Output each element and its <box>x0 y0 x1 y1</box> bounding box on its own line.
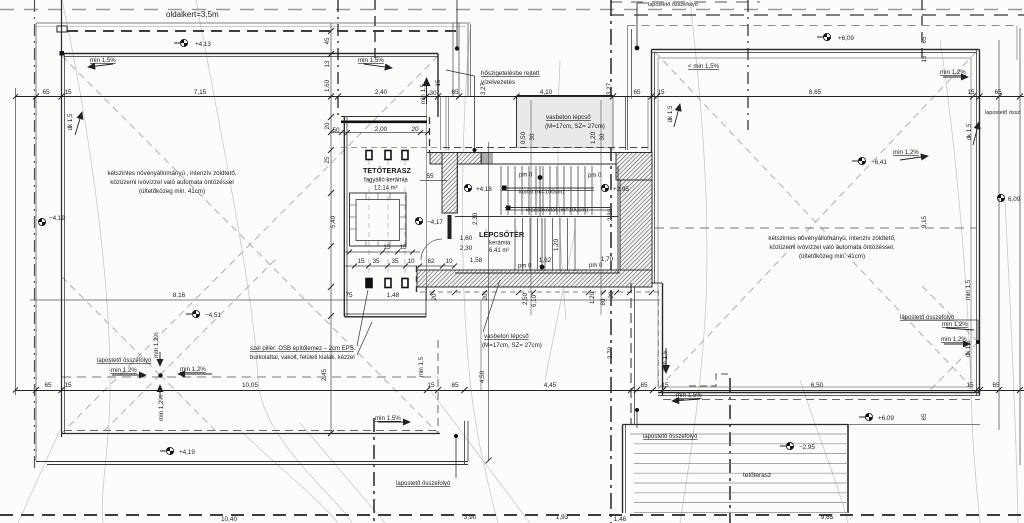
svg-text:6,50: 6,50 <box>811 382 824 389</box>
dim ticks on y=390 <box>33 387 1023 393</box>
svg-text:65: 65 <box>633 89 641 96</box>
svg-text:65: 65 <box>42 89 50 96</box>
svg-text:(M=17cm, SZ= 27cm): (M=17cm, SZ= 27cm) <box>545 123 605 130</box>
svg-text:4,10: 4,10 <box>540 89 553 96</box>
svg-text:10: 10 <box>407 258 415 265</box>
svg-text:dk 1,5: dk 1,5 <box>966 123 973 140</box>
svg-text:közüzemi ivóvízzel való automa: közüzemi ivóvízzel való automata öntözés… <box>110 179 233 186</box>
svg-text:65: 65 <box>921 413 928 420</box>
spot +4,17 door <box>415 217 422 224</box>
svg-text:TETŐTERASZ: TETŐTERASZ <box>363 166 412 175</box>
walking lines with dots <box>539 166 541 216</box>
svg-text:35: 35 <box>372 258 380 265</box>
svg-text:dk 1,5: dk 1,5 <box>667 105 674 122</box>
handrails <box>501 187 594 189</box>
svg-text:min 1,5%: min 1,5% <box>90 57 116 64</box>
svg-text:1,20: 1,20 <box>590 131 597 144</box>
left property dashed vertical <box>34 0 36 470</box>
svg-text:6,41 m²: 6,41 m² <box>489 248 509 254</box>
spot -4,19 left edge <box>38 218 45 225</box>
oldalkert dashed gray line top <box>0 9 1024 11</box>
left edge <box>343 117 345 317</box>
svg-text:pm 0: pm 0 <box>518 264 532 270</box>
spot +4,18 <box>464 184 471 191</box>
svg-text:30: 30 <box>429 90 437 97</box>
svg-text:1,20: 1,20 <box>553 238 560 251</box>
stairs lower flight treads <box>515 218 575 271</box>
svg-text:hőszigetelésbe rejtett: hőszigetelésbe rejtett <box>481 70 540 77</box>
svg-text:0,50: 0,50 <box>520 131 527 144</box>
svg-text:15: 15 <box>966 382 974 389</box>
svg-text:15: 15 <box>399 244 407 251</box>
svg-text:min 1,2%: min 1,2% <box>940 69 966 76</box>
svg-text:15: 15 <box>64 382 72 389</box>
svg-text:+4,19: +4,19 <box>179 449 195 456</box>
svg-text:min 1,5: min 1,5 <box>418 356 425 377</box>
svg-text:−6,41: −6,41 <box>871 159 887 166</box>
svg-text:6,09: 6,09 <box>1008 196 1021 203</box>
svg-text:15: 15 <box>357 258 365 265</box>
svg-text:lapostető összefolyó: lapostető összefolyó <box>648 2 698 8</box>
bottom edge <box>344 313 426 315</box>
svg-text:< min 1,5%: < min 1,5% <box>688 63 720 70</box>
svg-text:(M=17cm, SZ= 27cm): (M=17cm, SZ= 27cm) <box>482 342 542 349</box>
svg-text:10,05: 10,05 <box>242 382 258 389</box>
svg-text:75: 75 <box>345 292 353 299</box>
svg-text:min 1,2%: min 1,2% <box>893 149 919 156</box>
dashed line through right block <box>655 227 976 229</box>
right block drain leader <box>903 319 978 321</box>
svg-text:2,40: 2,40 <box>375 89 388 96</box>
svg-text:min 1,5%: min 1,5% <box>375 415 401 422</box>
svg-text:dk 1,5: dk 1,5 <box>67 113 74 130</box>
svg-text:15: 15 <box>383 244 391 251</box>
node top left <box>60 51 65 56</box>
svg-text:(ültetőközeg min. 41cm): (ültetőközeg min. 41cm) <box>799 253 865 260</box>
central section line <box>610 0 612 523</box>
svg-text:9,15: 9,15 <box>921 215 928 228</box>
svg-text:30: 30 <box>529 133 536 140</box>
svg-text:5,40: 5,40 <box>330 215 337 228</box>
svg-text:2,45: 2,45 <box>321 368 328 381</box>
svg-text:−4,19: −4,19 <box>49 215 65 222</box>
building edges <box>61 0 63 437</box>
vertical dim chains <box>330 23 332 433</box>
svg-text:10,40: 10,40 <box>221 516 237 523</box>
drain valley rays left <box>62 277 160 375</box>
svg-text:4,50: 4,50 <box>479 370 486 383</box>
svg-text:2,50: 2,50 <box>522 292 529 305</box>
svg-text:15: 15 <box>967 89 975 96</box>
svg-text:1,20: 1,20 <box>589 291 596 304</box>
svg-text:2,30: 2,30 <box>472 212 479 225</box>
svg-text:2,30: 2,30 <box>607 208 614 221</box>
dashed pergola guides <box>341 147 440 149</box>
svg-text:min 1,2%: min 1,2% <box>111 367 137 374</box>
svg-text:62: 62 <box>427 258 435 265</box>
svg-text:10: 10 <box>445 258 453 265</box>
svg-text:+4,18: +4,18 <box>476 186 492 193</box>
parapet top <box>341 116 427 118</box>
right drain <box>976 340 980 344</box>
svg-text:−2,95: −2,95 <box>799 444 815 451</box>
svg-text:15: 15 <box>661 382 669 389</box>
szél pillér leaders <box>357 290 368 346</box>
svg-text:kerámia: kerámia <box>489 241 511 247</box>
svg-text:45: 45 <box>324 37 331 44</box>
svg-text:min 1,5: min 1,5 <box>420 83 427 104</box>
bottom heavy dashed boundary <box>0 514 1024 516</box>
svg-text:1,62: 1,62 <box>539 257 552 264</box>
svg-text:korlát (m=100cm): korlát (m=100cm) <box>519 190 564 196</box>
right drain rays <box>920 284 978 342</box>
svg-text:lapostető össz: lapostető össz <box>985 110 1020 116</box>
svg-text:20: 20 <box>482 293 489 300</box>
svg-text:közüzemi ivóvízzel való automa: közüzemi ivóvízzel való automata öntözés… <box>769 244 894 251</box>
svg-text:65: 65 <box>451 89 459 96</box>
svg-text:15: 15 <box>427 382 435 389</box>
svg-text:lapostető összefolyó: lapostető összefolyó <box>97 358 152 364</box>
svg-text:1,58: 1,58 <box>470 257 483 264</box>
hőszigetelésbe leader <box>474 76 476 150</box>
svg-text:15: 15 <box>921 55 928 62</box>
svg-text:oldalkert=3,5m: oldalkert=3,5m <box>166 10 219 19</box>
concrete stair shaded box <box>517 97 614 148</box>
svg-text:tetőterasz: tetőterasz <box>743 472 771 479</box>
svg-text:min 1,5%: min 1,5% <box>358 57 384 64</box>
inner thin green roof rect <box>658 58 971 387</box>
stairs upper flight treads <box>501 166 592 215</box>
svg-text:35: 35 <box>391 258 399 265</box>
svg-text:min 1,2%: min 1,2% <box>941 336 967 343</box>
svg-text:9,65: 9,65 <box>821 514 834 521</box>
svg-text:30: 30 <box>599 133 606 140</box>
svg-text:20: 20 <box>324 122 331 129</box>
svg-text:min 1,2%: min 1,2% <box>180 366 206 373</box>
svg-text:min 1,2%: min 1,2% <box>153 332 160 358</box>
svg-text:2,00: 2,00 <box>375 126 388 133</box>
bottom outer double lines <box>36 461 468 463</box>
svg-text:−4,17: −4,17 <box>427 219 443 226</box>
svg-text:1,70: 1,70 <box>601 256 614 263</box>
svg-text:+4,13: +4,13 <box>195 41 211 48</box>
svg-text:lapostető összefolyó: lapostető összefolyó <box>643 434 698 440</box>
svg-text:8,65: 8,65 <box>809 89 822 96</box>
faint slope diagonals left block <box>62 52 978 433</box>
vertical slope arrows <box>426 78 428 104</box>
svg-text:3,70: 3,70 <box>607 346 614 359</box>
top right leader with dot <box>636 3 638 48</box>
svg-text:pm 0: pm 0 <box>589 263 603 269</box>
svg-text:fagyálló kerámia: fagyálló kerámia <box>364 178 408 184</box>
right block big X <box>655 52 976 392</box>
spot +4,13 <box>174 39 188 46</box>
roof drain left block <box>158 373 162 377</box>
spot +4,19 bottom left <box>160 447 174 454</box>
svg-text:20: 20 <box>431 293 438 300</box>
svg-text:pm 0: pm 0 <box>519 173 533 179</box>
svg-text:pm 0: pm 0 <box>588 173 602 179</box>
spot -2,95 bottom terrace <box>780 442 794 449</box>
bottom centre drain leader <box>455 437 457 478</box>
svg-text:(ültetőközeg min. 41cm): (ültetőközeg min. 41cm) <box>139 188 205 195</box>
svg-text:6,10: 6,10 <box>531 294 538 307</box>
heavy dashed top inner <box>67 30 459 32</box>
svg-text:−4,51: −4,51 <box>205 312 221 319</box>
mid horizontal line (8,16) <box>30 299 660 301</box>
svg-text:lépcsőkorlát (m=100cm): lépcsőkorlát (m=100cm) <box>526 208 588 214</box>
svg-text:55: 55 <box>426 173 434 180</box>
svg-text:3,90: 3,90 <box>464 514 477 521</box>
svg-text:vasbeton lépcső: vasbeton lépcső <box>546 114 591 121</box>
core walls hatched <box>417 153 652 288</box>
svg-text:1,60: 1,60 <box>324 79 331 92</box>
valley dashed line through left drain <box>62 376 438 378</box>
posts bottom <box>366 279 372 288</box>
svg-text:80: 80 <box>600 298 607 305</box>
svg-text:+6,09: +6,09 <box>838 35 854 42</box>
other heavy dash verticals <box>337 0 339 117</box>
spot +2,95 <box>601 184 608 191</box>
top centre leader x457 <box>456 0 458 48</box>
dashed min slope line below right block <box>663 399 980 401</box>
spot -6,41 <box>852 157 866 164</box>
svg-text:65: 65 <box>994 89 1002 96</box>
svg-text:65: 65 <box>451 382 459 389</box>
svg-text:65: 65 <box>921 36 928 43</box>
bottom terrace drain leader <box>636 410 638 428</box>
svg-text:burkolattal, vakolt, felületi: burkolattal, vakolt, felületi kialak. ké… <box>250 355 355 361</box>
svg-text:1,93: 1,93 <box>556 514 569 521</box>
svg-text:25: 25 <box>324 156 331 163</box>
bottom building edge + inner dashed <box>62 433 441 435</box>
svg-text:7,15: 7,15 <box>194 89 207 96</box>
svg-text:3,27: 3,27 <box>480 82 487 95</box>
svg-text:min 1,2%: min 1,2% <box>942 321 968 328</box>
svg-text:50: 50 <box>332 127 340 134</box>
svg-text:20: 20 <box>411 126 419 133</box>
svg-text:min 1,2%: min 1,2% <box>158 395 165 421</box>
svg-text:1,48: 1,48 <box>387 292 400 299</box>
outer thin envelope <box>36 23 471 461</box>
vertical dim extension lines through core <box>530 100 532 315</box>
svg-text:szél pillér: OSB építőlemez –: szél pillér: OSB építőlemez – 2cm EPS <box>250 346 354 352</box>
wall face lines <box>417 153 652 288</box>
svg-text:65: 65 <box>44 382 52 389</box>
vasbeton lépcső lower leader <box>483 280 500 332</box>
svg-text:1,46: 1,46 <box>614 516 627 523</box>
svg-text:min 1,5: min 1,5 <box>965 279 972 300</box>
posts top <box>366 151 372 160</box>
svg-text:4,45: 4,45 <box>544 382 557 389</box>
svg-text:kétszintes növényállományú , i: kétszintes növényállományú , intenzív zö… <box>108 170 237 177</box>
rotated dimension labels <box>67 36 973 421</box>
svg-text:LÉPCSŐTÉR: LÉPCSŐTÉR <box>479 230 525 239</box>
svg-text:15: 15 <box>657 89 665 96</box>
skylight <box>350 193 407 246</box>
svg-text:vasbeton lépcső: vasbeton lépcső <box>484 333 529 340</box>
svg-text:15: 15 <box>64 89 72 96</box>
svg-text:12,14 m²: 12,14 m² <box>374 186 398 192</box>
svg-text:+6,09: +6,09 <box>878 415 894 422</box>
svg-text:65: 65 <box>992 382 1000 389</box>
spot -4,51 <box>186 310 200 317</box>
svg-text:8,16: 8,16 <box>173 292 186 299</box>
svg-text:65: 65 <box>640 382 648 389</box>
svg-text:1,60: 1,60 <box>460 235 473 242</box>
door leaf + swing <box>448 215 452 239</box>
spot +6,09 bottom <box>859 413 873 420</box>
svg-text:kétszintes növényállományú, in: kétszintes növényállományú, intenzív zöl… <box>768 235 896 242</box>
svg-text:+2,95: +2,95 <box>613 186 629 193</box>
spot -6,09 right edge <box>997 194 1004 201</box>
svg-text:13: 13 <box>324 60 331 67</box>
svg-text:20: 20 <box>608 291 615 298</box>
svg-text:lapostető összefolyó: lapostető összefolyó <box>396 481 451 487</box>
svg-text:2,30: 2,30 <box>460 245 473 252</box>
svg-text:15: 15 <box>435 79 442 86</box>
svg-text:min 1,5%: min 1,5% <box>676 392 702 399</box>
left block big X <box>62 56 438 433</box>
spot +6,09 top right <box>817 33 831 40</box>
dim ticks on y=96.5 <box>33 94 1023 100</box>
svg-text:3,27: 3,27 <box>606 82 613 95</box>
